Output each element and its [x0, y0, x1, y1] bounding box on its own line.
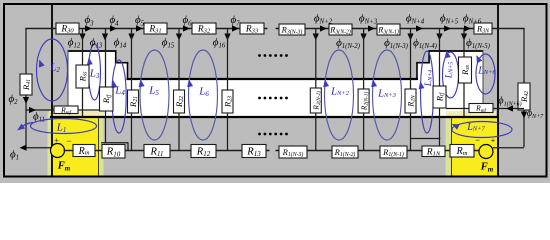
continuation dots middle [258, 97, 261, 100]
flux arrow phi4 [416, 25, 423, 31]
resistor R22 [174, 90, 185, 113]
bottom rail seg10 [474, 150, 480, 152]
flux arrow phi4 [110, 25, 117, 31]
flux arrow down [407, 34, 413, 41]
step left top edge [68, 50, 117, 52]
loop label LN+5 [445, 62, 455, 79]
wire branch x464 upper [463, 29, 465, 59]
top rail wire seg5 [305, 28, 329, 30]
left yoke boundary line [51, 4, 53, 176]
bottom rail seg6 [307, 150, 332, 152]
top rail stub right of R33 [264, 28, 268, 30]
top rail wire seg4 [216, 28, 240, 30]
flux arrow phi5 [136, 25, 143, 31]
resistor R1(N-2) [332, 146, 358, 158]
wire jog left horizontal [101, 142, 128, 144]
flux loop LN+6 [476, 54, 495, 94]
wire jog left drop [127, 143, 129, 151]
resistor R2N [405, 89, 416, 113]
loop label LN+4 [424, 70, 434, 87]
loop label L4 [114, 85, 125, 97]
flux arrow phi15 down [176, 34, 182, 41]
flux arrow phi2 down [23, 97, 29, 104]
resistor Rm right [450, 145, 474, 158]
flux arrow phi6 [183, 25, 190, 31]
step right top edge [428, 50, 483, 52]
bottom rail seg7 [358, 150, 380, 152]
top rail wire seg2 [79, 28, 144, 30]
resistor R13 [242, 145, 266, 158]
wire branch x105 lower [105, 110, 107, 143]
wire branch x315.8 upper [315, 29, 317, 92]
pale fringing column right [446, 117, 452, 176]
resistor R3(N-3) [279, 24, 305, 35]
loop label L3 [89, 68, 100, 80]
resistor Rmf left [54, 106, 78, 114]
resistor Rtf right [433, 86, 446, 108]
resistor R3N [474, 23, 492, 34]
resistor R23 [222, 90, 233, 113]
stator core background [0, 0, 550, 183]
resistor R11 [144, 145, 170, 158]
resistor Rss right [459, 57, 472, 83]
flux arrow phi2 [320, 25, 327, 31]
flux arrow phi11 right [29, 107, 36, 113]
wire branch x227.5 upper [227, 29, 229, 92]
top rail wire seg6 [352, 28, 377, 30]
bottom rail seg3 [125, 150, 144, 152]
continuation dots lower [258, 133, 261, 136]
wire branch x131.5 lower [131, 112, 133, 151]
flux loop L1 [31, 119, 97, 134]
outer core border [4, 4, 547, 177]
step left vertical edge 2 [127, 63, 129, 80]
loop label LN+3 [377, 88, 397, 99]
wire branch x227.5 lower [227, 112, 229, 151]
bottom rail seg8 [407, 150, 422, 152]
wire bottom left horiz [22, 147, 51, 149]
wire branch x179 upper [178, 29, 180, 92]
resistor R3(N-2) [329, 24, 352, 35]
resistor R31 [144, 23, 167, 34]
wire left column [25, 29, 27, 149]
wire branch x131.5 upper [131, 29, 133, 92]
top rail stub left of R3(N-3) [276, 28, 280, 30]
flux arrow phiN+7 down [521, 112, 527, 119]
resistor R1(N-1) [380, 146, 407, 158]
resistor R12 [191, 145, 216, 158]
resistor R1(N-3) [279, 146, 307, 158]
resistor R32 [192, 23, 216, 34]
flux loop L4 [112, 60, 126, 133]
loop label LN+2 [330, 86, 350, 97]
white slot step left [68, 51, 116, 117]
flux loop L5 [140, 50, 169, 140]
wire branch x179 lower [178, 112, 180, 151]
flux loop L6 [189, 50, 218, 140]
flux arrow down [313, 34, 319, 41]
flux arrow down [436, 34, 442, 41]
resistor Rmf right [469, 104, 493, 113]
resistor Rm left [73, 145, 95, 157]
flux loop LN+4 [421, 51, 434, 133]
bottom rail stub [266, 150, 270, 152]
wire branch x363.6 upper [363, 29, 365, 92]
wire mmf branch right [446, 108, 524, 110]
top rail wire seg3 [167, 28, 192, 30]
magnet block left (yellow) [52, 118, 99, 177]
flux arrow phi16 down [224, 34, 230, 41]
loop label L5 [148, 85, 159, 97]
resistor R33 [240, 23, 264, 34]
resistor R41 [20, 74, 32, 95]
pale fringing strip right [446, 111, 496, 118]
resistor R3(N-1) [377, 24, 400, 35]
wire branch x315.8 lower [315, 112, 317, 151]
step left vertical edge [115, 51, 117, 64]
top rail wire seg8 [492, 28, 525, 30]
wire branch x82.5 lower [82, 87, 84, 117]
loop label L2 [49, 62, 60, 74]
white slot step right [429, 51, 483, 117]
flux arrow phi3 [368, 25, 375, 31]
flux arrow phi5 [444, 25, 451, 31]
white slot step left 2 [116, 63, 128, 117]
flux arrow phi13 down [102, 34, 108, 41]
flux source Fm right [479, 145, 493, 159]
loop label L6 [198, 86, 209, 98]
step left shelf edge [115, 62, 128, 64]
resistor R1N [422, 146, 445, 157]
top rail wire seg7 [400, 28, 474, 30]
resistor R42 [518, 83, 530, 110]
flux arrow phi3 [85, 25, 92, 31]
band top edge [127, 78, 419, 80]
wire branch x105 upper [105, 29, 107, 88]
wire mmf branch left [26, 109, 100, 111]
step right vertical edge [428, 51, 430, 64]
flux loop LN+2 [325, 50, 354, 140]
svg-text:+: + [54, 136, 59, 145]
flux loop L2 [37, 39, 68, 101]
gray above band right end [442, 79, 498, 117]
pale fringing strip left [49, 111, 104, 118]
flux arrow phi12 down [79, 34, 85, 41]
step right shelf edge [416, 62, 430, 64]
right yoke boundary line [497, 4, 499, 176]
loop label LN+6 [477, 65, 496, 76]
wire branch x438 upper [439, 29, 441, 87]
loop label L1 [56, 122, 67, 134]
flux loop LN+7 [452, 122, 512, 138]
flux arrow down [361, 34, 367, 41]
flux loop LN+3 [373, 50, 402, 140]
flux arrow down [461, 34, 467, 41]
flux loop LN+5 [443, 52, 459, 98]
pale fringing column left [98, 117, 104, 176]
resistor R10 [102, 145, 125, 159]
step left side edge [67, 51, 69, 112]
wire jog right horizontal [411, 138, 441, 140]
resistor R21 [128, 90, 139, 113]
resistor Rtf left [100, 87, 114, 111]
pale fringing column outer-left [48, 112, 53, 176]
magnet block right (yellow) [452, 118, 499, 177]
bottom rail seg4 [170, 150, 191, 152]
bottom rail seg2 [94, 150, 102, 152]
bottom rail stub2 [276, 150, 280, 152]
gray above band left end [52, 79, 108, 117]
bottom rail seg5 [216, 150, 242, 152]
flux arrow phi1 left [20, 145, 27, 151]
step right vertical edge 2 [416, 63, 418, 80]
flux arrow phi14 down [128, 34, 134, 41]
air-gap band region [52, 79, 498, 117]
bottom rail seg9 [445, 150, 450, 152]
resistor R2(N-2) [310, 88, 321, 113]
top rail wire left [25, 28, 56, 30]
flux source Fm left [51, 144, 65, 158]
svg-text:−: − [475, 135, 480, 145]
wire branch x82.5 upper [82, 29, 84, 67]
step right side edge [482, 51, 484, 112]
band bottom edge [50, 116, 498, 118]
wire branch x464 lower [463, 82, 465, 117]
svg-text:−: − [66, 136, 71, 146]
wire branch x363.6 lower [363, 112, 365, 151]
wire right column [523, 29, 525, 148]
resistor R30 [56, 23, 79, 34]
resistor R2(N-1) [358, 89, 369, 113]
flux arrow phi6 [464, 25, 471, 31]
flux arrow left on right branch [506, 105, 513, 111]
loop label LN+7 [466, 122, 485, 133]
wire branch x410.5 upper [410, 29, 412, 92]
resistor Rsl [76, 65, 89, 88]
wire bottom right horiz [493, 147, 524, 149]
wire branch x438 lower [439, 108, 441, 147]
flux arrow phi7 [232, 25, 239, 31]
wire branch x410.5 lower [410, 112, 412, 151]
white slot step right 2 [417, 63, 429, 117]
bottom rail seg1 [64, 150, 75, 152]
flux loop L3 [89, 44, 101, 100]
continuation dots upper [258, 54, 261, 57]
